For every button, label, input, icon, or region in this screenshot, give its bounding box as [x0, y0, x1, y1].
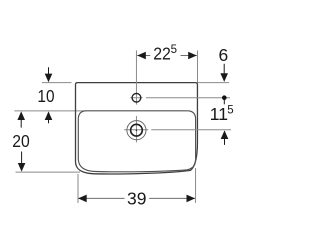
basin outer outline [76, 83, 198, 174]
svg-text:5: 5 [227, 105, 233, 117]
drain outer circle [127, 121, 146, 140]
dimension 22.5: line segments [137, 55, 150, 57]
dimension 11.5: up arrow below drain line [221, 130, 229, 139]
wire: top edge extension right to 6-dim [198, 82, 230, 84]
wire: drain line to right dimension arrow [151, 129, 231, 131]
dimension 22.5: left arrow [137, 52, 146, 60]
svg-text:22: 22 [153, 44, 171, 64]
wire: extension line of bowl top edge to left [14, 110, 86, 112]
drain inner circle [131, 124, 143, 136]
dimension 20: down arrow to bowl bottom line [21, 152, 23, 164]
dimension 20: up arrow to bowl line [17, 111, 25, 120]
wire: 39 left extension line [77, 174, 79, 203]
svg-text:39: 39 [127, 189, 146, 209]
dimension 6: line and down arrow [223, 64, 225, 75]
wire: tap hole vertical centerline upper [135, 50, 137, 104]
wire: top edge extension tick at left (10 dim) [42, 82, 72, 84]
dimension 39: line segments [78, 197, 124, 199]
wire: stub below dot [223, 98, 225, 105]
wire: drain vertical centerline [135, 116, 137, 142]
wire: tap hole line to right dimension dot [146, 97, 230, 99]
svg-text:20: 20 [12, 131, 30, 151]
dimension point dot at tap line [222, 95, 227, 100]
wire: extension line of bowl bottom edge to left [16, 171, 81, 173]
wire: drain crosshair horizontal tick [124, 129, 148, 131]
dimension 22.5: right arrow [188, 52, 197, 60]
svg-text:11: 11 [210, 104, 229, 124]
dimension 10: up arrow to bowl line [45, 111, 53, 120]
svg-text:5: 5 [171, 44, 177, 56]
drain center dot [136, 129, 138, 131]
tap hole [132, 93, 141, 102]
dimension 39: left arrow [78, 195, 87, 203]
wire: tap hole horizontal tick [130, 97, 142, 99]
wire: vertical extension right edge above basin (22.5 dim) [197, 51, 199, 83]
svg-text:6: 6 [219, 45, 229, 65]
wire: 39 right extension line [195, 168, 197, 203]
dimension 39: right arrow [187, 195, 196, 203]
basin bowl outline [78, 111, 195, 172]
svg-text:10: 10 [37, 86, 54, 106]
dimension 10: down arrow to top edge [48, 67, 50, 74]
